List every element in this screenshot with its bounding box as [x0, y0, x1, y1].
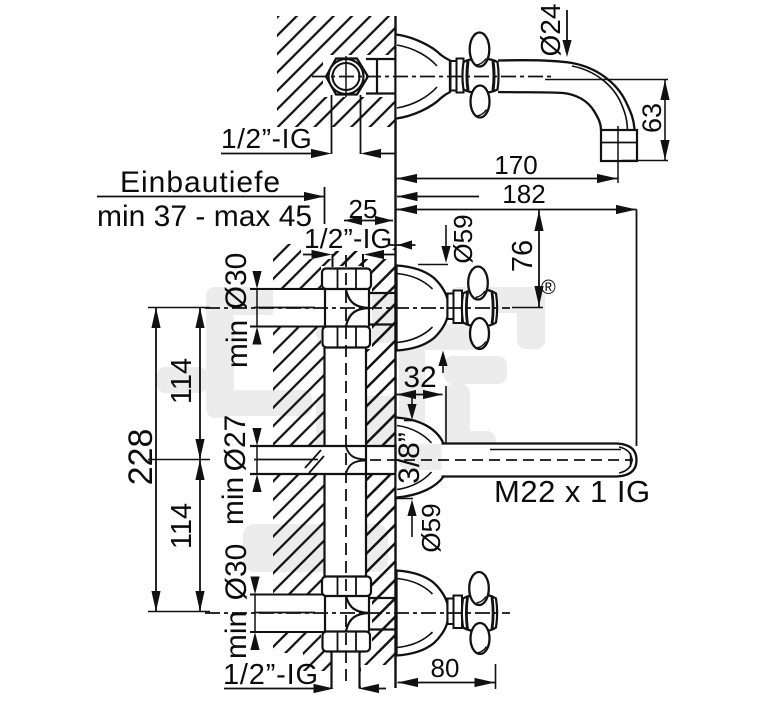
pipe valve to wall (top view) — [366, 59, 396, 94]
pipe below bottom valve — [330, 651, 332, 689]
hub bottom valve — [462, 595, 497, 632]
svg-text:min 37 - max 45: min 37 - max 45 — [97, 200, 312, 233]
handle lobes top valve — [468, 267, 488, 300]
collar rings (top view) — [451, 59, 464, 93]
svg-text:Einbautiefe: Einbautiefe — [120, 166, 281, 199]
svg-text:min: min — [221, 320, 254, 368]
pipe above top valve — [332, 254, 334, 267]
svg-text:1/2”-IG: 1/2”-IG — [221, 123, 312, 154]
centerline top view — [312, 76, 552, 78]
bell flange (top view) — [397, 35, 451, 119]
centerline top valve — [254, 307, 315, 309]
svg-text:Ø30: Ø30 — [220, 544, 253, 601]
svg-text:1/2”-IG: 1/2”-IG — [223, 659, 319, 691]
svg-text:228: 228 — [122, 429, 160, 486]
svg-text:114: 114 — [166, 503, 198, 549]
svg-text:Ø30: Ø30 — [220, 253, 253, 310]
riser centerline vertical — [345, 255, 347, 687]
handle lobes bottom valve — [469, 572, 489, 605]
riser channel edges — [325, 348, 367, 576]
valve inner circle — [333, 63, 360, 90]
svg-text:min: min — [217, 477, 250, 525]
top valve hex nut upper — [322, 269, 371, 290]
collar top valve — [448, 291, 463, 324]
handle hub (top view) — [462, 59, 498, 94]
hole lines top valve — [250, 289, 325, 327]
svg-text:114: 114 — [166, 358, 198, 404]
valve outer circle — [329, 59, 364, 94]
svg-text:182: 182 — [502, 179, 545, 209]
spout (top view) — [498, 60, 635, 130]
collar bottom valve — [448, 596, 463, 629]
centerline bottom valve — [254, 612, 315, 614]
svg-text:M22 x 1 IG: M22 x 1 IG — [494, 474, 651, 509]
wall reference arrow y245 — [390, 244, 416, 246]
svg-text:63: 63 — [637, 103, 667, 133]
svg-text:®: ® — [541, 277, 556, 299]
valve hex (top view) — [326, 59, 368, 95]
stub lines top valve — [369, 293, 396, 325]
bell top valve — [397, 266, 448, 351]
hole lines middle tee — [250, 446, 396, 474]
top valve hex nut lower — [323, 327, 371, 348]
svg-text:Ø27: Ø27 — [219, 415, 252, 472]
M22 spout pipe — [442, 444, 637, 477]
hole lines bottom valve — [250, 595, 325, 633]
top valve body — [325, 289, 369, 327]
bottom valve body — [325, 595, 369, 632]
watermark logo — [157, 277, 556, 572]
valve vertical center tick — [345, 56, 347, 97]
stub lines bottom valve — [369, 598, 396, 630]
svg-text:80: 80 — [431, 653, 460, 683]
svg-text:170: 170 — [494, 150, 537, 180]
svg-text:Ø24: Ø24 — [535, 4, 566, 57]
wall hatch top view — [277, 16, 395, 127]
bottom valve hex nut lower — [323, 632, 371, 652]
svg-text:Ø59: Ø59 — [448, 214, 478, 263]
svg-text:min: min — [220, 611, 253, 659]
centerline middle spout right — [370, 459, 633, 461]
handle lobe up (top view) — [470, 33, 490, 67]
svg-text:Ø59: Ø59 — [416, 503, 446, 552]
svg-text:3/8”: 3/8” — [393, 432, 426, 484]
centerline middle spout left — [254, 459, 318, 461]
svg-text:32: 32 — [403, 361, 436, 394]
wall face line — [394, 16, 396, 688]
svg-text:1/2”-IG: 1/2”-IG — [304, 223, 393, 254]
bottom valve hex nut upper — [322, 577, 371, 597]
stray hatch marks in tee band — [305, 450, 324, 473]
bell middle spout — [397, 418, 444, 444]
handle lobe down (top view) — [471, 86, 490, 118]
extension lines left dims — [148, 308, 210, 612]
wall hatch front view — [273, 243, 396, 689]
bell bottom valve — [397, 571, 448, 656]
tee funnel arcs — [346, 447, 366, 473]
aerator (top view) — [601, 130, 637, 161]
hub top valve — [462, 290, 497, 327]
svg-text:76: 76 — [507, 240, 539, 272]
